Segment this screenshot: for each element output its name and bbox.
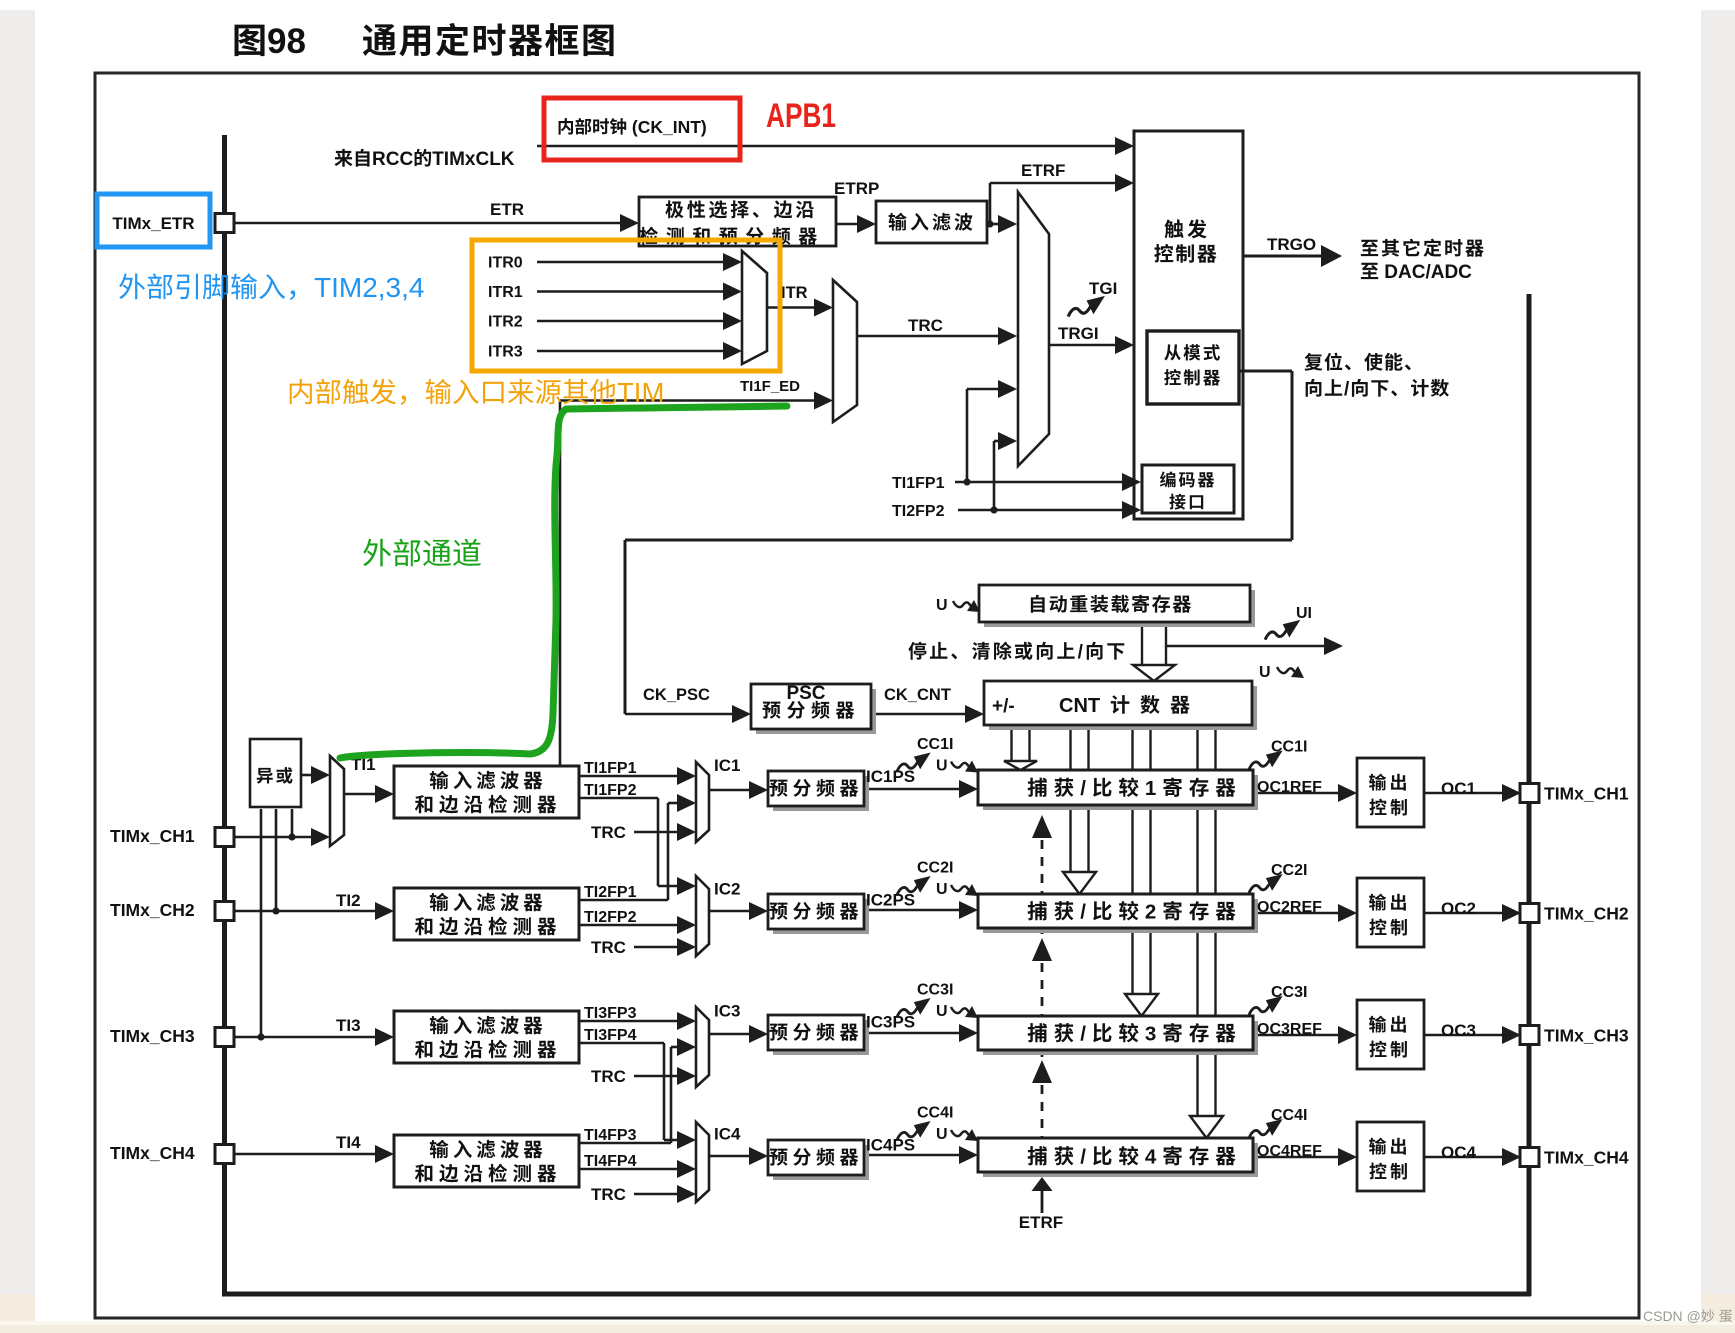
wire TRGO <box>1243 255 1322 258</box>
block XOR 异或 <box>250 739 301 807</box>
wire OC1REF <box>1253 792 1341 795</box>
arrow TI1FP1 into big mux <box>998 380 1017 398</box>
text output ctrl 2 line1 <box>1369 894 1386 911</box>
svg-text:CC1I: CC1I <box>1271 739 1307 756</box>
text stop clear updown <box>908 642 926 660</box>
arrow IC1PS into register <box>959 780 978 798</box>
wire OC2REF <box>1253 912 1341 915</box>
pin TIMx_CH3 left <box>215 1028 234 1047</box>
pin TIMx_CH4 right <box>1520 1148 1539 1167</box>
block input filter ETR <box>876 201 987 243</box>
interrupt squiggle UI <box>1265 620 1300 640</box>
svg-text:U: U <box>936 597 948 614</box>
arrow TI4FP4 into IC4 mux <box>677 1160 696 1178</box>
block capture-compare register 1 <box>983 775 1258 810</box>
arrow TI3FP3 into IC3 mux <box>677 1012 696 1030</box>
wire TI4FP3 to IC3 mux <box>671 1046 680 1049</box>
wire TRC <box>857 335 1002 338</box>
svg-text:TIMx_CH2: TIMx_CH2 <box>110 900 195 920</box>
arrow up into CC1 bottom <box>1032 815 1052 838</box>
svg-text:TI1FP2: TI1FP2 <box>584 782 637 799</box>
block input-filter-edge-detector ch4 <box>394 1135 579 1187</box>
svg-text:TI1FP1: TI1FP1 <box>584 760 637 777</box>
svg-text:IC2: IC2 <box>714 880 740 899</box>
arrow up into CC3 bottom <box>1032 1060 1052 1083</box>
wire OC4 <box>1424 1156 1505 1159</box>
svg-text:APB1: APB1 <box>766 97 836 135</box>
wire TI1F_ED <box>560 399 818 402</box>
svg-text:U: U <box>936 1126 948 1143</box>
svg-text:TIM: TIM <box>617 377 664 408</box>
event squiggle U below update line <box>1277 666 1304 678</box>
arrow TI1FP1 into encoder <box>1122 473 1141 491</box>
block capture-compare register 3 <box>983 1021 1258 1055</box>
pin TIMx_ETR <box>215 214 234 233</box>
text counter <box>1111 695 1130 714</box>
wire IC1 <box>709 789 752 792</box>
pin TIMx_CH2 left <box>215 902 234 921</box>
svg-text:U: U <box>936 1003 948 1020</box>
svg-text:ETRF: ETRF <box>1021 161 1065 180</box>
svg-text:1: 1 <box>1145 777 1162 800</box>
svg-text:OC3REF: OC3REF <box>1257 1021 1322 1038</box>
svg-text:CSDN: CSDN <box>1643 1308 1683 1324</box>
wire CK_CNT <box>871 713 968 716</box>
svg-text:98: 98 <box>267 22 306 61</box>
svg-text:TIMx_CH1: TIMx_CH1 <box>110 826 195 846</box>
wire OC3REF <box>1253 1034 1341 1037</box>
text polarity select line2 <box>640 227 658 245</box>
block output control 1 输出控制 <box>1357 758 1424 827</box>
arrow ITR0 into mux <box>723 253 742 271</box>
wire TI1F_ED riser from CH1 filter <box>559 401 562 767</box>
block trigger-controller 触发控制器 <box>1134 131 1243 519</box>
svg-text:IC1: IC1 <box>714 756 740 775</box>
block IC3 prescaler 预分频器 <box>773 1020 869 1055</box>
text capture compare register 1 <box>1028 778 1047 797</box>
arrow IC2 into prescaler <box>749 902 768 920</box>
block PSC prescaler <box>756 689 876 734</box>
svg-text:CC4I: CC4I <box>1271 1107 1307 1124</box>
arrow ETRF into CC4 bottom <box>1032 1177 1053 1191</box>
pin TIMx_CH3 right <box>1520 1026 1539 1045</box>
label TIMxCLK from RCC <box>334 149 352 167</box>
svg-text:OC1: OC1 <box>1441 779 1476 798</box>
arrow TI1 into filter1 <box>375 785 394 803</box>
block input-filter-edge-detector ch1 <box>394 766 579 818</box>
junction TI2FP2 <box>990 506 997 513</box>
wire TI4FP3 <box>579 1142 671 1145</box>
svg-text:TRC: TRC <box>591 1185 626 1204</box>
arrow OC2 to pin <box>1502 904 1521 922</box>
arrow OC1 to pin <box>1502 784 1521 802</box>
arrow ETRF into trigger controller <box>1115 174 1134 192</box>
svg-text:TIMx_CH1: TIMx_CH1 <box>1544 784 1629 804</box>
wire CK_PSC horizontal <box>625 539 1292 542</box>
arrow XOR out into TI1 mux <box>311 766 330 784</box>
svg-text:/: / <box>1078 642 1085 663</box>
svg-text:TIM2,3,4: TIM2,3,4 <box>314 272 424 303</box>
text auto reload register <box>1031 595 1045 613</box>
svg-text:TI1F_ED: TI1F_ED <box>740 378 800 395</box>
block encoder-interface 编码器接口 <box>1142 465 1234 513</box>
block capture-compare register 4 <box>983 1143 1258 1177</box>
block input-filter-edge-detector ch2 <box>394 888 579 940</box>
wire TI2FP2 riser <box>993 441 996 510</box>
mux TI1 select <box>330 756 344 846</box>
block input-filter-edge-detector ch3 <box>394 1011 579 1063</box>
svg-text:(CK_INT): (CK_INT) <box>632 117 707 137</box>
wire TI4FP4 <box>579 1168 680 1171</box>
wire CK_PSC down <box>624 540 627 714</box>
wire TI3FP3 <box>579 1020 680 1023</box>
svg-text:CC3I: CC3I <box>917 982 953 999</box>
svg-text:ITR1: ITR1 <box>488 284 523 301</box>
text slave mode line1 <box>1164 344 1181 360</box>
text output ctrl 4 line1 <box>1369 1138 1386 1155</box>
svg-text:OC2REF: OC2REF <box>1257 899 1322 916</box>
mux IC1 select <box>696 762 709 842</box>
mux big TRGI select <box>1018 192 1049 466</box>
svg-text:TIMx_CH2: TIMx_CH2 <box>1544 904 1629 924</box>
pin TIMx_CH1 right <box>1520 784 1539 803</box>
wire update event U <box>1167 645 1326 648</box>
text capture compare register 2 <box>1028 901 1047 920</box>
text output ctrl 4 line2 <box>1369 1163 1386 1180</box>
wire CK_PSC into PSC <box>625 713 734 716</box>
interrupt squiggle TGI <box>1068 296 1105 317</box>
arrow TI1F_ED into trigger mux <box>814 392 833 410</box>
svg-text:TI4FP3: TI4FP3 <box>584 1127 637 1144</box>
arrow TRGI into trigger controller <box>1115 336 1134 354</box>
wire ETRF into CC4 <box>1041 1189 1044 1213</box>
svg-text:/: / <box>1344 379 1350 400</box>
svg-text:TI3FP3: TI3FP3 <box>584 1005 637 1022</box>
wire TI1FP1 to big mux <box>967 388 1002 391</box>
text to DAC ADC <box>1361 263 1378 279</box>
text encoder line2 <box>1169 494 1185 510</box>
arrow CK_PSC into PSC <box>732 705 751 723</box>
wire dashed compare chain upper <box>1041 840 1044 938</box>
svg-text:TGI: TGI <box>1089 279 1117 298</box>
annotation green path external channel <box>340 406 787 758</box>
svg-text:PSC: PSC <box>786 683 825 704</box>
annotation blue box around TIMx_ETR <box>97 194 210 247</box>
text capture compare register 4 <box>1028 1146 1047 1165</box>
block IC1 prescaler 预分频器 <box>773 776 869 811</box>
svg-text:CC1I: CC1I <box>917 736 953 753</box>
arrow ETRP into big mux <box>998 215 1017 233</box>
svg-text:IC3: IC3 <box>714 1002 740 1021</box>
annotation orange box around ITR inputs <box>472 240 780 371</box>
wire CNT shaft to CC2 left <box>1069 725 1071 873</box>
arrow IC3PS into register <box>959 1024 978 1042</box>
interrupt squiggle CC3I left <box>897 998 931 1017</box>
hollow arrow CNT into CC2 <box>1063 872 1096 894</box>
text output ctrl 3 line1 <box>1369 1016 1386 1033</box>
arrow TI2FP2 into IC2 mux <box>677 916 696 934</box>
svg-text:OC1REF: OC1REF <box>1257 779 1322 796</box>
wire TI2FP2 to encoder <box>958 509 1126 512</box>
arrow update event <box>1324 637 1343 655</box>
text prescaler 1 <box>769 780 787 797</box>
arrow IC2PS into register <box>959 901 978 919</box>
svg-text:4: 4 <box>1145 1146 1162 1169</box>
block output control 3 输出控制 <box>1357 1000 1424 1069</box>
annotation blue text <box>119 273 145 299</box>
wire dashed compare chain middle <box>1041 963 1044 1060</box>
svg-text:IC4: IC4 <box>714 1125 741 1144</box>
wire ETR <box>234 222 624 225</box>
arrow IC4 into prescaler <box>749 1147 768 1165</box>
hollow arrow CNT into CC4 <box>1190 1116 1223 1138</box>
wire CNT shaft to CC1 left <box>1010 725 1012 762</box>
svg-text:+/-: +/- <box>992 696 1015 717</box>
junction ETRP/ETRF <box>986 220 993 227</box>
wire IC2PS <box>864 909 962 912</box>
text up down count <box>1306 379 1322 397</box>
arrow ITR into trigger mux <box>814 299 833 317</box>
arrow CH1 into TI1 mux <box>311 828 330 846</box>
junction TI1FP1 <box>963 478 970 485</box>
wire TI1 <box>344 793 380 796</box>
text prescaler 2 <box>769 903 787 920</box>
event squiggle U row 4 <box>951 1129 978 1141</box>
svg-text:ITR3: ITR3 <box>488 344 523 361</box>
block capture-compare register 2 <box>983 899 1258 933</box>
text filter 1 line2 <box>415 795 432 813</box>
svg-text:/: / <box>1080 1023 1092 1046</box>
wire IC4PS <box>864 1154 962 1157</box>
svg-text:CC4I: CC4I <box>917 1105 953 1122</box>
mux ITR select <box>742 251 767 364</box>
arrow CK_CNT into CNT <box>965 705 984 723</box>
wire ETR to input filter <box>836 223 860 226</box>
svg-text:TI3FP4: TI3FP4 <box>584 1027 637 1044</box>
mux IC2 select <box>696 876 709 956</box>
wire ITR2 <box>537 320 726 323</box>
wire IC2 <box>709 910 752 913</box>
interrupt squiggle CC1I right <box>1249 750 1283 769</box>
event squiggle U at ARR <box>953 600 980 612</box>
wire CK_INT <box>537 145 1130 148</box>
svg-text:/: / <box>1080 777 1092 800</box>
svg-text:TI4: TI4 <box>336 1133 361 1152</box>
text filter 3 line1 <box>430 1016 449 1034</box>
arrow into input filter <box>857 215 876 233</box>
text input filter <box>889 213 907 231</box>
text filter 2 line2 <box>415 917 432 935</box>
svg-text:TIMx_ETR: TIMx_ETR <box>112 214 194 233</box>
wire IC1PS <box>864 788 962 791</box>
wire ETRF riser <box>989 183 992 224</box>
svg-text:CK_CNT: CK_CNT <box>884 686 951 704</box>
svg-text:CC3I: CC3I <box>1271 984 1307 1001</box>
interrupt squiggle CC4I left <box>897 1121 931 1140</box>
svg-text:UI: UI <box>1296 605 1312 622</box>
wire TRC stub row3 <box>634 1075 680 1078</box>
hollow arrow CNT into CC1 <box>1004 761 1037 770</box>
svg-text:ITR0: ITR0 <box>488 255 523 272</box>
block auto-reload register 自动重装载寄存器 <box>984 590 1255 627</box>
arrow IC1 into prescaler <box>749 781 768 799</box>
svg-text:TIMx_CH3: TIMx_CH3 <box>1544 1026 1629 1046</box>
wire left pin bus vertical <box>222 135 227 1292</box>
text filter 4 line1 <box>430 1140 449 1158</box>
hollow arrow CNT into CC3 <box>1125 994 1158 1016</box>
arrow TI1FP2 into IC2 mux <box>677 877 696 895</box>
svg-text:TIMx_CH4: TIMx_CH4 <box>1544 1148 1629 1168</box>
annotation orange text <box>290 379 312 404</box>
junction CH3/XOR <box>257 1033 264 1040</box>
arrow TI2FP1 into IC1 mux <box>677 794 696 812</box>
svg-text:TRC: TRC <box>591 1067 626 1086</box>
arrow TRC into IC4 mux <box>677 1185 696 1203</box>
arrow ITR2 into mux <box>723 312 742 330</box>
text filter 2 line1 <box>430 893 449 911</box>
wire CNT shaft to CC3 left <box>1131 725 1133 995</box>
wire TI2FP1 <box>579 899 668 902</box>
wire right pin bus vertical <box>1527 294 1532 1296</box>
svg-text:TRGI: TRGI <box>1058 324 1099 343</box>
arrow OC1REF into output ctrl <box>1338 784 1357 802</box>
svg-text:TI4FP4: TI4FP4 <box>584 1153 637 1170</box>
arrow TI4FP3 into IC3 mux <box>677 1038 696 1056</box>
arrow TRGO out <box>1321 245 1342 267</box>
wire IC4 <box>709 1155 752 1158</box>
wire TRGI <box>1049 344 1118 347</box>
wire TI1FP2 drop <box>657 798 660 886</box>
svg-text:TRC: TRC <box>591 823 626 842</box>
junction CH2/XOR <box>272 907 279 914</box>
block output control 2 输出控制 <box>1357 878 1424 947</box>
wire TI4 <box>234 1153 380 1156</box>
arrow TI2 into filter2 <box>375 902 394 920</box>
svg-text:TI1FP1: TI1FP1 <box>892 475 945 492</box>
wire OC3 <box>1424 1034 1505 1037</box>
wire TI3 <box>234 1036 380 1039</box>
text capture compare register 3 <box>1028 1023 1047 1042</box>
svg-text:/: / <box>1080 901 1092 924</box>
wire IC3 <box>709 1033 752 1036</box>
block slave-mode-controller 从模式控制器 <box>1147 331 1239 404</box>
arrow TI4 into filter4 <box>375 1145 394 1163</box>
block IC4 prescaler 预分频器 <box>773 1145 869 1180</box>
wire ETRP to big mux <box>987 223 1002 226</box>
svg-text:TRC: TRC <box>591 938 626 957</box>
wire TI1FP2 <box>579 797 658 800</box>
arrow ITR1 into mux <box>723 283 742 301</box>
text to other timers <box>1361 240 1378 256</box>
svg-text:ITR2: ITR2 <box>488 314 523 331</box>
wire TI3FP4 to IC4 mux <box>664 1139 680 1142</box>
pin TIMx_CH1 left <box>215 828 234 847</box>
title text <box>363 24 396 56</box>
wire IC3PS <box>864 1032 962 1035</box>
svg-text:IC2PS: IC2PS <box>866 891 915 910</box>
wire OC4REF <box>1253 1156 1341 1159</box>
svg-text:CK_PSC: CK_PSC <box>643 686 710 704</box>
svg-text:TIMxCLK: TIMxCLK <box>432 149 515 170</box>
annotation green text <box>363 539 391 567</box>
pin TIMx_CH2 right <box>1520 904 1539 923</box>
wire XOR input from CH1 <box>291 809 294 837</box>
svg-text:RCC: RCC <box>372 149 413 170</box>
arrow TRC into IC3 mux <box>677 1067 696 1085</box>
wire ITR mux output <box>767 306 818 309</box>
svg-text:OC4REF: OC4REF <box>1257 1143 1322 1160</box>
svg-text:TI2FP1: TI2FP1 <box>584 884 637 901</box>
arrow OC3REF into output ctrl <box>1338 1026 1357 1044</box>
annotation red box around internal clock <box>544 98 740 160</box>
arrow IC3 into prescaler <box>749 1025 768 1043</box>
wire XOR input from CH2 <box>275 809 278 911</box>
arrow TRC into big mux <box>998 327 1017 345</box>
event squiggle U row 1 <box>951 761 978 773</box>
svg-text:ETRP: ETRP <box>834 179 879 198</box>
wire CNT shaft to CC4 left <box>1196 725 1198 1117</box>
block polarity-select edge-detect prescaler <box>639 197 836 246</box>
svg-text:CC2I: CC2I <box>1271 862 1307 879</box>
wire OC1 <box>1424 792 1505 795</box>
svg-text:OC4: OC4 <box>1441 1143 1477 1162</box>
svg-text:OC2: OC2 <box>1441 899 1476 918</box>
arrow TI2FP2 into encoder <box>1122 501 1141 519</box>
wire CK_PSC drop <box>1291 371 1294 540</box>
interrupt squiggle CC2I right <box>1249 874 1283 893</box>
text filter 3 line2 <box>415 1040 432 1058</box>
pin TIMx_CH4 left <box>215 1145 234 1164</box>
arrow OC2REF into output ctrl <box>1338 904 1357 922</box>
block IC2 prescaler 预分频器 <box>773 899 869 934</box>
text filter 1 line1 <box>430 771 449 789</box>
svg-text:TRC: TRC <box>908 316 943 335</box>
arrow IC4PS into register <box>959 1146 978 1164</box>
wire TI2FP2 <box>579 924 680 927</box>
block output control 4 输出控制 <box>1357 1122 1424 1191</box>
wire ITR3 <box>537 350 726 353</box>
wire TRC stub row4 <box>634 1193 680 1196</box>
text output ctrl 3 line2 <box>1369 1041 1386 1058</box>
svg-text:2: 2 <box>1145 901 1162 924</box>
wire TI4FP3 riser <box>670 1047 673 1143</box>
interrupt squiggle CC4I right <box>1249 1119 1283 1138</box>
wire TI1FP2 to IC2 mux <box>658 885 680 888</box>
text filter 4 line2 <box>415 1164 432 1182</box>
interrupt squiggle CC1I left <box>897 752 931 771</box>
wire ETRF <box>990 182 1118 185</box>
mux IC3 select <box>696 1007 709 1087</box>
arrow ITR3 into mux <box>723 342 742 360</box>
arrow TI1FP1 into IC1 mux <box>677 767 696 785</box>
wire bottom bus horizontal <box>222 1292 1531 1297</box>
wire slave mode output <box>1239 370 1292 373</box>
mux trigger select TRC <box>833 280 857 422</box>
wire TI2FP1 to IC1 mux <box>668 802 680 805</box>
svg-text:ETR: ETR <box>490 200 524 219</box>
svg-text:CNT: CNT <box>1059 695 1100 717</box>
arrow TRC into IC1 mux <box>677 823 696 841</box>
wire OC2 <box>1424 912 1505 915</box>
svg-text:TI2FP2: TI2FP2 <box>892 503 945 520</box>
wire TRC stub row1 <box>634 831 680 834</box>
text reset enable <box>1304 353 1322 371</box>
label internal clock CK_INT <box>559 118 573 134</box>
svg-text:/: / <box>1080 1146 1092 1169</box>
svg-text:U: U <box>936 881 948 898</box>
interrupt squiggle CC2I left <box>897 876 931 895</box>
text trigger line1 <box>1164 220 1183 239</box>
